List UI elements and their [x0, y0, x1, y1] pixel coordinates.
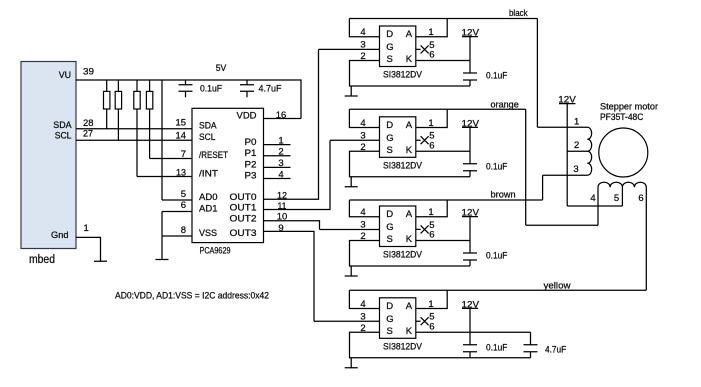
svg-text:5: 5: [181, 189, 186, 200]
svg-text:PCA9629: PCA9629: [200, 246, 231, 257]
svg-text:VDD: VDD: [237, 111, 257, 122]
svg-text:2: 2: [360, 323, 365, 334]
svg-text:6: 6: [429, 321, 434, 332]
svg-text:3: 3: [278, 158, 283, 169]
svg-text:SI3812DV: SI3812DV: [383, 70, 423, 81]
svg-text:12V: 12V: [462, 28, 480, 39]
svg-text:PF35T-48C: PF35T-48C: [600, 112, 644, 123]
svg-text:SCL: SCL: [55, 131, 72, 142]
svg-text:K: K: [406, 54, 413, 65]
svg-text:4: 4: [360, 118, 365, 129]
svg-text:D: D: [386, 209, 393, 220]
svg-text:2: 2: [360, 51, 365, 62]
svg-text:brown: brown: [491, 190, 516, 201]
svg-text:0.1uF: 0.1uF: [486, 162, 508, 173]
svg-text:SI3812DV: SI3812DV: [383, 250, 423, 261]
svg-text:1: 1: [84, 223, 89, 234]
svg-text:6: 6: [429, 230, 434, 241]
svg-text:2: 2: [360, 142, 365, 153]
svg-text:6: 6: [429, 140, 434, 151]
svg-text:4: 4: [360, 299, 365, 310]
svg-text:1: 1: [574, 117, 579, 128]
svg-text:7: 7: [181, 149, 186, 160]
svg-text:10: 10: [277, 212, 288, 223]
svg-text:2: 2: [278, 147, 283, 158]
svg-text:6: 6: [429, 50, 434, 61]
svg-text:S: S: [387, 326, 393, 337]
svg-text:AD1: AD1: [199, 203, 218, 214]
svg-text:S: S: [387, 54, 393, 65]
svg-text:K: K: [406, 145, 413, 156]
svg-text:S: S: [387, 145, 393, 156]
svg-text:4: 4: [590, 193, 595, 204]
svg-text:D: D: [386, 301, 393, 312]
svg-text:OUT3: OUT3: [230, 228, 257, 239]
svg-text:14: 14: [176, 130, 187, 141]
svg-text:3: 3: [360, 40, 365, 51]
svg-text:27: 27: [83, 129, 93, 140]
svg-text:0.1uF: 0.1uF: [200, 84, 222, 95]
svg-text:28: 28: [83, 118, 94, 129]
svg-text:0.1uF: 0.1uF: [486, 71, 508, 82]
svg-text:P2: P2: [245, 159, 257, 170]
svg-text:orange: orange: [491, 100, 519, 111]
svg-text:AD0: AD0: [199, 192, 218, 203]
svg-text:12V: 12V: [462, 118, 480, 129]
svg-text:11: 11: [278, 201, 287, 212]
svg-text:D: D: [386, 29, 393, 40]
svg-text:3: 3: [360, 130, 365, 141]
svg-text:VU: VU: [59, 70, 71, 81]
svg-text:SI3812DV: SI3812DV: [383, 160, 423, 171]
svg-text:4.7uF: 4.7uF: [545, 345, 566, 356]
svg-text:/RESET: /RESET: [199, 150, 228, 161]
svg-text:6: 6: [181, 200, 186, 211]
svg-text:9: 9: [278, 223, 283, 234]
svg-text:SDA: SDA: [53, 120, 72, 131]
svg-text:G: G: [386, 42, 393, 53]
svg-text:A: A: [406, 29, 413, 40]
svg-text:4.7uF: 4.7uF: [259, 84, 282, 95]
svg-text:16: 16: [276, 110, 287, 121]
svg-text:4: 4: [360, 207, 365, 218]
svg-text:OUT1: OUT1: [230, 203, 257, 214]
svg-text:VSS: VSS: [199, 228, 217, 239]
svg-text:6: 6: [638, 193, 643, 204]
svg-text:yellow: yellow: [544, 281, 571, 292]
svg-text:3: 3: [573, 164, 578, 175]
svg-text:A: A: [406, 301, 413, 312]
svg-text:3: 3: [360, 311, 365, 322]
svg-text:2: 2: [574, 140, 579, 151]
svg-text:0.1uF: 0.1uF: [486, 343, 508, 354]
svg-text:SI3812DV: SI3812DV: [383, 341, 423, 352]
svg-text:G: G: [386, 314, 393, 325]
svg-text:G: G: [386, 222, 393, 233]
svg-text:12V: 12V: [462, 208, 480, 219]
svg-text:8: 8: [181, 225, 186, 236]
svg-text:12V: 12V: [558, 95, 576, 106]
svg-text:5: 5: [614, 193, 619, 204]
svg-text:S: S: [387, 234, 393, 245]
svg-text:SCL: SCL: [199, 132, 216, 143]
svg-text:K: K: [406, 326, 413, 337]
svg-text:OUT2: OUT2: [230, 214, 257, 225]
svg-text:1: 1: [428, 118, 433, 129]
svg-text:G: G: [386, 133, 393, 144]
svg-text:4: 4: [360, 27, 365, 38]
svg-text:1: 1: [278, 136, 283, 147]
svg-text:P0: P0: [245, 137, 257, 148]
svg-text:mbed: mbed: [29, 254, 55, 266]
svg-text:black: black: [509, 8, 528, 19]
svg-text:1: 1: [428, 299, 433, 310]
svg-text:K: K: [406, 234, 413, 245]
svg-text:2: 2: [360, 231, 365, 242]
svg-text:AD0:VDD, AD1:VSS = I2C address: AD0:VDD, AD1:VSS = I2C address:0x42: [115, 291, 269, 302]
svg-text:P3: P3: [245, 170, 257, 181]
svg-text:D: D: [386, 120, 393, 131]
svg-text:P1: P1: [245, 148, 257, 159]
svg-text:12V: 12V: [462, 299, 480, 310]
svg-text:OUT0: OUT0: [230, 192, 257, 203]
svg-text:/INT: /INT: [199, 168, 218, 179]
svg-text:15: 15: [176, 118, 187, 129]
svg-text:5V: 5V: [216, 63, 227, 74]
svg-text:A: A: [406, 209, 413, 220]
svg-text:3: 3: [360, 220, 365, 231]
svg-text:A: A: [406, 120, 413, 131]
svg-text:1: 1: [428, 207, 433, 218]
svg-text:0.1uF: 0.1uF: [486, 251, 508, 262]
svg-text:39: 39: [83, 67, 94, 78]
svg-text:Stepper motor: Stepper motor: [600, 102, 658, 113]
svg-text:1: 1: [428, 27, 433, 38]
svg-text:Gnd: Gnd: [51, 230, 69, 241]
svg-text:SDA: SDA: [199, 121, 217, 132]
svg-text:4: 4: [278, 169, 283, 180]
svg-text:13: 13: [176, 168, 186, 179]
